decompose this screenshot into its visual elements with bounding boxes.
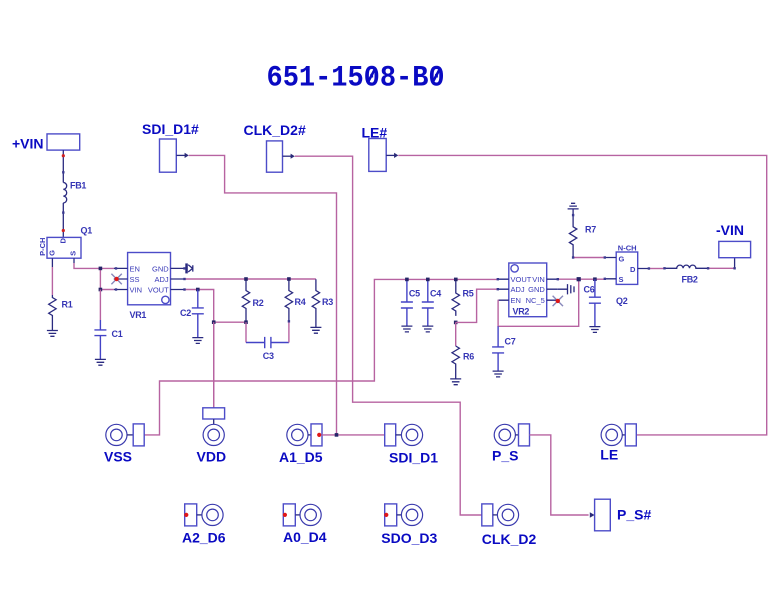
svg-text:A0_D4: A0_D4 (283, 529, 327, 545)
wire VSS net (144, 279, 498, 435)
svg-text:R2: R2 (253, 298, 264, 308)
node C6 tap (593, 277, 597, 281)
svg-text:SDI_D1#: SDI_D1# (142, 121, 199, 137)
wire P_S to P_S# (530, 435, 589, 515)
svg-text:-VIN: -VIN (716, 222, 744, 238)
port CLK_D2# (244, 122, 306, 172)
test point P_S (492, 424, 530, 464)
svg-text:C4: C4 (430, 289, 441, 299)
svg-text:CLK_D2: CLK_D2 (482, 531, 537, 547)
svg-text:ADJ: ADJ (511, 285, 525, 294)
svg-text:VOUT: VOUT (148, 286, 169, 295)
test point A1_D5 (279, 424, 323, 465)
wire VR1 VOUT to VDD (185, 290, 214, 408)
port +VIN (12, 134, 80, 152)
svg-text:C1: C1 (112, 329, 123, 339)
svg-text:A1_D5: A1_D5 (279, 449, 323, 465)
ground (C6) (589, 327, 600, 333)
wire A1_D5 to SDI_D1 (322, 434, 385, 436)
power symbol (VR1 GND pin) (185, 263, 193, 273)
svg-text:FB2: FB2 (682, 275, 698, 285)
ground (C7) (493, 371, 504, 377)
capacitor C7 (492, 326, 516, 371)
wire R7 to Q2 G (573, 257, 605, 259)
svg-text:ADJ: ADJ (155, 275, 169, 284)
port P_S# (590, 499, 652, 531)
capacitor C1 (94, 320, 122, 359)
wire VR1 ADJ to R2 R4 R3 (185, 278, 316, 280)
ground (R6) (450, 379, 461, 385)
svg-text:VIN: VIN (130, 286, 143, 295)
resistor R3 (312, 279, 333, 327)
svg-text:LE: LE (600, 446, 618, 462)
svg-text:G: G (47, 250, 56, 256)
svg-text:R4: R4 (295, 297, 306, 307)
node R2 bottom junction (244, 320, 248, 324)
svg-text:P_S#: P_S# (617, 506, 651, 522)
ground (C5) (401, 326, 412, 332)
svg-text:C7: C7 (505, 337, 516, 347)
wire Q1 G to R1 (51, 258, 53, 295)
svg-text:VOUT: VOUT (511, 275, 532, 284)
node R4 top junction (287, 277, 291, 281)
wire R4 bottom to C3 (288, 322, 290, 342)
svg-text:R7: R7 (585, 225, 596, 235)
voltage regulator VR1 (114, 253, 185, 321)
svg-text:VR1: VR1 (130, 310, 147, 320)
resistor R7 (569, 209, 596, 258)
title 651-1508-B0 (267, 60, 445, 95)
wire SDI_D1# net (189, 155, 337, 435)
wire FB1 to Q1 (62, 203, 64, 238)
ground (C4) (422, 326, 433, 332)
svg-text:SDI_D1: SDI_D1 (389, 450, 438, 466)
svg-text:N-CH: N-CH (618, 244, 637, 253)
test point VDD (197, 408, 227, 465)
svg-text:P_S: P_S (492, 448, 518, 464)
test point A0_D4 (283, 504, 327, 545)
resistor R2 (242, 279, 263, 322)
svg-text:VSS: VSS (104, 449, 132, 465)
no-connect X on NC_5 pin (553, 296, 563, 306)
resistor R6 (452, 346, 474, 379)
node VIN junction (99, 288, 103, 292)
node pin-end dots (62, 171, 736, 322)
test point LE (600, 424, 636, 462)
svg-text:VDD: VDD (197, 448, 227, 464)
node VOUT corner branch (212, 320, 216, 324)
svg-text:GND: GND (528, 285, 545, 294)
svg-text:D: D (59, 238, 68, 244)
node red pin dots (62, 154, 65, 232)
ground symbol (VR2 GND pin, sideways) (558, 284, 574, 294)
svg-text:G: G (619, 255, 625, 264)
wire VR2 VIN to Q2 S (558, 278, 605, 280)
svg-text:CLK_D2#: CLK_D2# (244, 122, 306, 138)
capacitor C4 (422, 279, 441, 326)
svg-text:NC_5: NC_5 (526, 296, 545, 305)
svg-text:GND: GND (152, 264, 169, 273)
test point SDO_D3 (381, 504, 437, 546)
no-connect X on SS pin (111, 274, 121, 284)
svg-text:C6: C6 (584, 285, 595, 295)
svg-text:R1: R1 (62, 300, 73, 310)
ferrite bead FB1 (63, 181, 86, 203)
svg-text:R3: R3 (322, 297, 333, 307)
wire VR2 EN loop to VIN node (498, 279, 579, 326)
wire Q2 D to FB2 (649, 268, 665, 270)
svg-text:C3: C3 (263, 351, 274, 361)
node R2 top junction (244, 277, 248, 281)
svg-text:651-1508-B0: 651-1508-B0 (267, 60, 445, 95)
test point SDI_D1 (385, 424, 439, 466)
svg-text:R5: R5 (463, 289, 474, 299)
test point CLK_D2 (482, 504, 537, 547)
node EN junction (99, 267, 103, 271)
port LE# (362, 125, 399, 172)
node R5 bottom junction (454, 321, 458, 325)
wire CLK_D2# net (295, 156, 482, 515)
capacitor C6 (584, 279, 601, 326)
transistor Q2 (605, 244, 649, 307)
node R5 top junction (454, 278, 458, 282)
svg-text:R6: R6 (463, 352, 474, 362)
capacitor C5 (401, 279, 420, 326)
svg-text:FB1: FB1 (70, 181, 86, 191)
resistor R5 (452, 279, 474, 316)
resistor R4 (285, 279, 305, 322)
node SDI corner junction (335, 433, 339, 437)
resistor R1 (49, 295, 73, 331)
svg-text:VR2: VR2 (513, 307, 530, 317)
svg-text:D: D (630, 265, 636, 274)
wire FB2 to -VIN (708, 258, 735, 269)
port SDI_D1# (142, 121, 199, 172)
wire VOUT branch to R2 bottom (214, 321, 246, 323)
svg-text:SDO_D3: SDO_D3 (381, 530, 437, 546)
ferrite bead FB2 (665, 265, 709, 284)
svg-text:Q2: Q2 (616, 296, 628, 306)
svg-text:Q1: Q1 (81, 226, 93, 236)
svg-text:EN: EN (130, 264, 140, 273)
svg-text:+VIN: +VIN (12, 136, 44, 152)
wire R2 bottom to C3 (245, 322, 247, 342)
ground (above R7, flipped) (568, 203, 579, 209)
svg-text:C2: C2 (180, 308, 191, 318)
capacitor C2 (180, 290, 204, 338)
wire EN node down to VIN node (100, 268, 113, 289)
svg-text:P-CH: P-CH (38, 238, 47, 256)
svg-text:S: S (619, 275, 624, 284)
wire VR2 ADJ to R5/R6 (456, 289, 498, 322)
ground (R1) (47, 331, 58, 337)
svg-text:A2_D6: A2_D6 (182, 530, 226, 546)
node C4 tap (426, 278, 430, 282)
wire VIN node to C1 (99, 290, 101, 321)
svg-text:S: S (69, 251, 78, 256)
ground (C2) (192, 338, 203, 344)
port -VIN (716, 222, 751, 258)
wire Q1 S to EN node (74, 258, 114, 268)
node C2 tap (196, 288, 200, 292)
svg-text:C5: C5 (409, 289, 420, 299)
wire R5 to R6 (455, 322, 457, 346)
voltage regulator VR2 (498, 263, 558, 317)
ground (C1) (95, 359, 106, 365)
wire VDD drop (213, 322, 215, 408)
node VIN/EN junction (577, 277, 581, 281)
svg-text:VIN: VIN (532, 275, 545, 284)
transistor Q1 (38, 226, 92, 259)
test point VSS (104, 424, 144, 465)
ground (R3) (310, 327, 321, 333)
wire +VIN to FB1 (62, 150, 64, 182)
node C5 tap (405, 278, 409, 282)
capacitor C3 (246, 337, 289, 361)
svg-text:EN: EN (511, 296, 521, 305)
test point A2_D6 (182, 504, 226, 546)
svg-text:SS: SS (130, 275, 140, 284)
wire LE# net (398, 155, 766, 435)
